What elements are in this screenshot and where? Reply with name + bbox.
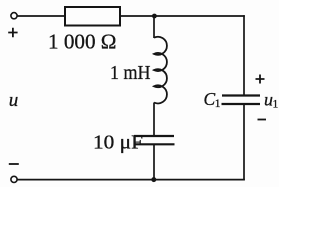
capacitor C1 top plate <box>222 94 260 96</box>
svg-text:10 μF: 10 μF <box>93 133 143 154</box>
wire capacitor to bottom <box>153 144 155 179</box>
resistor R 1000 ohm <box>65 7 120 26</box>
minus sign right <box>258 119 267 121</box>
terminal bottom-left <box>11 176 17 182</box>
capacitor C2 10 uF top plate <box>134 135 174 137</box>
svg-text:1 mH: 1 mH <box>110 63 151 84</box>
plus sign left <box>8 28 17 37</box>
svg-text:1: 1 <box>215 98 221 110</box>
wire inductor to capacitor <box>153 103 155 137</box>
wire right vertical upper <box>243 15 245 95</box>
plus sign right <box>256 75 265 84</box>
inductor L1 1 mH <box>154 37 167 104</box>
capacitor C1 bottom plate <box>222 103 261 105</box>
wire bottom <box>17 179 245 181</box>
terminal top-left <box>11 13 17 19</box>
capacitor C2 10 uF bottom plate <box>135 143 175 145</box>
wire stub junction to inductor <box>153 16 155 38</box>
minus sign left <box>9 163 19 165</box>
svg-text:u: u <box>9 90 19 111</box>
wire top-left to resistor <box>17 15 65 17</box>
svg-text:1 000 Ω: 1 000 Ω <box>48 29 117 53</box>
wire right vertical lower <box>243 104 245 180</box>
svg-text:1: 1 <box>273 99 279 111</box>
svg-text:C: C <box>204 89 216 109</box>
node B junction dot bottom <box>151 177 156 182</box>
node A junction dot top <box>152 14 157 19</box>
wire resistor to right corner <box>120 15 245 17</box>
